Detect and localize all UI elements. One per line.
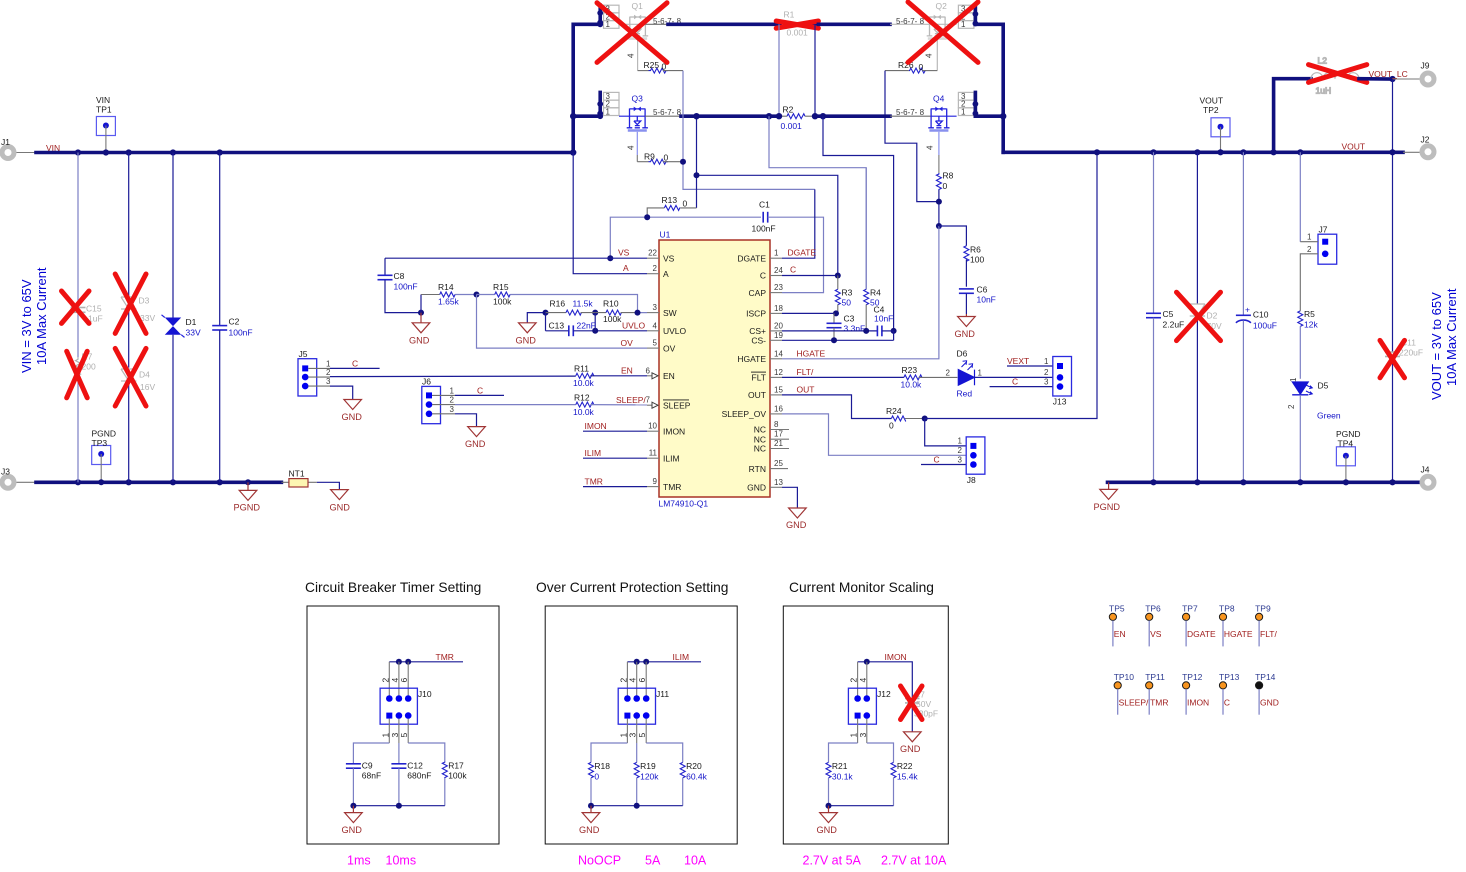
svg-text:TP10: TP10	[1114, 672, 1135, 682]
transistor Q4 pins 1-2-3 boxes	[958, 92, 974, 115]
LED D6 (Red)	[957, 349, 1007, 399]
svg-text:100uF: 100uF	[1253, 321, 1277, 331]
junction dots VOUT rail	[1094, 149, 1304, 155]
svg-text:2: 2	[380, 678, 390, 683]
pin 21 NC	[754, 439, 789, 454]
svg-text:ILIM: ILIM	[585, 448, 602, 458]
wire C stub (J8 pin3)	[921, 464, 966, 466]
wire CS staircase (R2 left to R4)	[769, 116, 866, 289]
svg-text:J6: J6	[422, 377, 431, 387]
svg-text:19: 19	[774, 331, 783, 340]
wire to C12	[398, 743, 400, 764]
svg-text:C: C	[352, 359, 358, 369]
svg-text:J10: J10	[418, 689, 432, 699]
svg-text:R10: R10	[603, 299, 619, 309]
wire to R18	[591, 743, 627, 762]
svg-text:1: 1	[1044, 357, 1049, 366]
svg-text:R8: R8	[943, 171, 954, 181]
svg-text:J12: J12	[877, 689, 891, 699]
DNP X over C11	[1380, 340, 1405, 377]
svg-text:VS: VS	[618, 248, 630, 258]
svg-text:0: 0	[943, 181, 948, 191]
svg-text:HGATE: HGATE	[737, 354, 766, 364]
svg-text:2: 2	[653, 264, 658, 273]
svg-text:2.2uF: 2.2uF	[1163, 320, 1185, 330]
wire DGATE riser (R25/R9 to IC)	[683, 71, 815, 190]
resistor R9	[637, 152, 683, 165]
svg-text:0: 0	[919, 62, 924, 72]
svg-text:10nF: 10nF	[977, 295, 996, 305]
svg-text:TMR: TMR	[1150, 698, 1168, 708]
svg-text:NoOCP: NoOCP	[578, 854, 621, 868]
svg-text:SLEEP_OV: SLEEP_OV	[722, 409, 767, 419]
pin 17 NC	[754, 430, 789, 445]
svg-text:10: 10	[648, 422, 657, 431]
wire J6 pin1 C stub	[432, 394, 455, 396]
svg-text:R16: R16	[550, 299, 566, 309]
box Circuit Breaker Timer Setting	[307, 606, 499, 844]
capacitor C8	[378, 258, 422, 312]
testpoint TP9 FLT/	[1255, 604, 1277, 647]
pin 12 FLT	[751, 368, 783, 383]
svg-text:C2: C2	[229, 317, 240, 327]
svg-text:C: C	[790, 265, 796, 275]
svg-text:TMR: TMR	[663, 482, 681, 492]
svg-text:DGATE: DGATE	[1187, 629, 1216, 639]
svg-text:C8: C8	[394, 271, 405, 281]
capacitor C11 (DNP)	[1385, 338, 1423, 483]
svg-text:GND: GND	[342, 825, 363, 835]
wire C pin line	[782, 275, 838, 277]
svg-text:D6: D6	[957, 349, 968, 359]
svg-text:18: 18	[774, 304, 783, 313]
svg-text:VEXT: VEXT	[1007, 356, 1029, 366]
resistor R15	[474, 282, 648, 313]
svg-text:1.65k: 1.65k	[438, 297, 460, 307]
svg-text:GND: GND	[409, 336, 430, 346]
capacitor C1	[752, 200, 824, 293]
svg-text:24: 24	[774, 266, 783, 275]
svg-text:C15: C15	[86, 304, 102, 314]
wire L2 branch thick	[1274, 79, 1311, 153]
wire Q3 gate stem	[636, 132, 638, 155]
svg-text:TP6: TP6	[1145, 604, 1161, 614]
wire J12 bottom stems	[858, 719, 867, 743]
svg-text:100nF: 100nF	[752, 224, 776, 234]
wire VIN rail	[36, 151, 573, 155]
svg-text:R14: R14	[438, 282, 454, 292]
svg-text:25: 25	[774, 459, 783, 468]
RIGHTPERIPH	[782, 152, 1097, 485]
svg-text:4: 4	[858, 678, 868, 683]
svg-text:100k: 100k	[603, 314, 622, 324]
svg-text:10.0k: 10.0k	[573, 407, 595, 417]
svg-text:J8: J8	[967, 475, 976, 485]
pin 2 A	[647, 264, 669, 279]
svg-text:Q1: Q1	[632, 1, 644, 11]
svg-text:OV: OV	[621, 338, 634, 348]
ground GND (box1)	[345, 806, 363, 823]
svg-text:LM74910-Q1: LM74910-Q1	[659, 499, 709, 509]
svg-text:TP11: TP11	[1145, 672, 1165, 682]
svg-text:R22: R22	[897, 761, 913, 771]
wire CS staircase (R2 right to C4)	[823, 116, 894, 331]
diode D2 (DNP)	[1190, 152, 1222, 482]
svg-text:J1: J1	[1, 137, 10, 147]
svg-text:0: 0	[594, 771, 599, 781]
pin 22 VS	[647, 249, 675, 264]
resistor R10	[573, 299, 641, 325]
svg-text:22: 22	[648, 249, 657, 258]
pin 3 SW	[647, 303, 677, 318]
wire VS/C1 line	[610, 217, 761, 258]
resistor R18	[589, 761, 611, 806]
wire J5 pin1 C stub	[308, 367, 330, 369]
ground GND (J6)	[468, 427, 486, 437]
svg-text:TP1: TP1	[96, 105, 112, 115]
wire Q1 row to R1	[645, 23, 668, 25]
wire C stub (J13 pin3)	[990, 386, 1053, 388]
svg-text:J5: J5	[299, 349, 308, 359]
wire NT1 leads	[281, 481, 289, 483]
svg-text:5A: 5A	[645, 854, 661, 868]
DNP X over C7	[901, 686, 923, 720]
svg-text:2: 2	[450, 396, 455, 405]
svg-text:R15: R15	[493, 282, 509, 292]
svg-text:OV: OV	[663, 343, 676, 353]
pin 20 CS+	[749, 321, 783, 336]
svg-text:1ms: 1ms	[347, 854, 371, 868]
resistor R14	[421, 282, 477, 313]
testpoint TP11 TMR	[1145, 672, 1168, 715]
pin 16 SLEEP_OV	[722, 404, 784, 419]
op-amp U1 LM74910-Q1 body	[659, 240, 770, 497]
ground GND (box3)	[820, 806, 838, 823]
svg-text:ISCP: ISCP	[746, 309, 766, 319]
svg-text:8: 8	[774, 420, 779, 429]
ground PGND (left rail)	[234, 479, 261, 512]
svg-text:R2: R2	[783, 105, 794, 115]
svg-text:3: 3	[958, 455, 963, 464]
wire Q2 gate stem	[936, 40, 938, 71]
box Over Current Protection Setting	[545, 606, 737, 844]
svg-text:Q4: Q4	[933, 94, 945, 104]
svg-text:11.5k: 11.5k	[573, 299, 594, 309]
pin 24 C	[760, 266, 784, 281]
wire Q2 pin bus	[974, 5, 978, 24]
svg-text:100k: 100k	[493, 297, 512, 307]
wire J6 pin3 to ground	[432, 413, 455, 415]
svg-text:A: A	[623, 263, 629, 273]
connector J13	[1053, 357, 1072, 407]
svg-text:DGATE: DGATE	[788, 248, 817, 258]
svg-text:68nF: 68nF	[362, 771, 381, 781]
capacitor C9	[346, 761, 381, 806]
svg-text:6: 6	[646, 366, 651, 375]
svg-text:TP8: TP8	[1219, 604, 1235, 614]
svg-text:+: +	[1245, 305, 1250, 315]
svg-text:TP2: TP2	[1203, 105, 1219, 115]
ground PGND (right rail)	[1100, 482, 1118, 499]
svg-text:50V: 50V	[916, 699, 931, 709]
svg-text:TP12: TP12	[1182, 672, 1203, 682]
wire GND stub after NT1	[317, 482, 340, 489]
ground GND (box2)	[582, 806, 600, 823]
svg-text:IMON: IMON	[885, 652, 907, 662]
svg-text:NC: NC	[754, 444, 766, 454]
ground GND (pin13)	[789, 508, 807, 518]
box Current Monitor Scaling	[783, 606, 948, 844]
transistor Q1 (DNP) symbol	[627, 15, 648, 39]
svg-text:1: 1	[1307, 233, 1312, 242]
svg-text:3: 3	[326, 377, 331, 386]
svg-text:C1: C1	[759, 200, 770, 210]
svg-text:Red: Red	[957, 389, 973, 399]
svg-text:FLT/: FLT/	[797, 367, 814, 377]
resistor R26	[885, 60, 937, 73]
svg-text:4: 4	[925, 53, 934, 58]
svg-text:12: 12	[774, 368, 783, 377]
TOPROW	[570, 1, 1006, 229]
svg-text:1: 1	[958, 437, 963, 446]
svg-text:1: 1	[774, 249, 779, 258]
transistor Q2 pins 1-2-3 boxes	[958, 5, 974, 28]
svg-text:R3: R3	[842, 288, 853, 298]
svg-text:J9: J9	[1421, 61, 1430, 71]
wire GND pin to ground	[782, 487, 797, 508]
DNP X over Q1	[597, 3, 667, 63]
wire PGND rail right	[1108, 480, 1420, 484]
resistor R13	[647, 195, 696, 217]
svg-text:15.4k: 15.4k	[897, 771, 919, 781]
connector J5	[298, 349, 317, 396]
resistor R21	[826, 761, 853, 806]
svg-text:J13: J13	[1053, 397, 1067, 407]
wire J7 pin stubs	[1300, 241, 1318, 243]
capacitor C13	[546, 313, 648, 337]
svg-text:TP3: TP3	[92, 438, 108, 448]
LEFTCOL	[19, 153, 253, 483]
ground GND (C6)	[958, 314, 976, 327]
transistor Q3 pins 1-2-3 boxes	[604, 92, 620, 115]
svg-text:100: 100	[970, 255, 984, 265]
wire EN line (J5 pin2 to R11)	[308, 376, 330, 378]
svg-text:PGND: PGND	[234, 503, 261, 513]
pin 9 TMR	[647, 477, 681, 492]
svg-text:SW: SW	[663, 308, 677, 318]
svg-text:Over Current Protection Settin: Over Current Protection Setting	[536, 580, 728, 595]
junction dots VIN rail	[75, 149, 577, 155]
svg-text:R25: R25	[644, 60, 660, 70]
wire VEXT stub (J13 pin1)	[1007, 365, 1053, 367]
resistor R1 (DNP) with X	[776, 10, 818, 38]
svg-text:R13: R13	[662, 195, 678, 205]
svg-text:C: C	[477, 385, 483, 395]
pin 1 DGATE	[737, 249, 782, 264]
svg-text:5: 5	[653, 339, 658, 348]
wire J10 bottom stems	[389, 719, 408, 743]
svg-text:GND: GND	[1260, 698, 1279, 708]
resistor R2	[779, 105, 815, 132]
junction dots PGND rail	[75, 479, 223, 485]
pin 5 OV	[647, 339, 676, 354]
svg-text:D1: D1	[186, 317, 197, 327]
DNP X over L2	[1309, 65, 1367, 83]
wire Q4 row right thick	[975, 114, 1003, 118]
connector J4	[1421, 465, 1435, 489]
wire IMON stub	[583, 430, 647, 432]
wire Q3 pin bus	[598, 92, 602, 116]
resistor R3	[835, 276, 852, 314]
svg-text:C: C	[1012, 376, 1018, 386]
wire top rail right corner	[975, 24, 1003, 152]
wire TMR node	[389, 661, 463, 663]
ground GND (C7)	[904, 732, 922, 742]
resistor R20	[680, 761, 707, 806]
wire VOUT rail	[1003, 151, 1403, 155]
resistor R23	[901, 365, 958, 390]
junction dots PGND rail right	[1150, 479, 1395, 485]
svg-text:2: 2	[1287, 404, 1296, 409]
resistor R6	[964, 245, 985, 287]
wire SLEEP line (J6 pin2 to R12)	[432, 404, 455, 406]
capacitor C10 (polarized)	[1236, 152, 1277, 482]
svg-text:GND: GND	[465, 439, 486, 449]
svg-text:GND: GND	[579, 825, 600, 835]
resistor R19	[634, 761, 659, 806]
svg-text:17: 17	[774, 430, 783, 439]
wire R1 left sense drop	[778, 24, 780, 116]
svg-text:UVLO: UVLO	[663, 326, 687, 336]
capacitor C5	[1146, 152, 1184, 482]
svg-text:60.4k: 60.4k	[686, 771, 708, 781]
svg-text:0.001: 0.001	[781, 121, 803, 131]
svg-text:PGND: PGND	[1094, 502, 1121, 512]
svg-text:C: C	[760, 271, 766, 281]
svg-text:R24: R24	[886, 406, 902, 416]
capacitor C7 (DNP)	[905, 690, 938, 732]
ground GND (C8/R14)	[409, 310, 430, 346]
resistor R22	[891, 761, 918, 806]
ground GND (J5)	[344, 400, 362, 410]
svg-text:GND: GND	[786, 520, 807, 530]
svg-text:OUT: OUT	[748, 390, 766, 400]
svg-text:GND: GND	[516, 336, 537, 346]
DNP X over D2	[1177, 292, 1221, 340]
wire R2 rail right	[815, 114, 890, 118]
svg-text:R17: R17	[448, 761, 464, 771]
svg-text:13: 13	[774, 478, 783, 487]
svg-text:4: 4	[628, 678, 638, 683]
svg-text:TP4: TP4	[1338, 439, 1354, 449]
pin 11 ILIM	[647, 449, 680, 464]
wire D6 to J13 pin2	[1006, 376, 1053, 378]
LED D5 (Green)	[1287, 377, 1341, 482]
wire VOUT_LC column (through C11)	[1392, 79, 1394, 352]
wire L2 to J9	[1359, 77, 1393, 81]
resistor R12	[573, 392, 647, 417]
testpoint TP13 C	[1219, 672, 1240, 715]
pin 4 UVLO	[647, 321, 687, 336]
svg-text:220uF: 220uF	[1399, 348, 1423, 358]
ground GND (after NT1)	[331, 490, 349, 500]
transistor Q2 (DNP) symbol	[927, 15, 948, 39]
svg-text:2: 2	[1307, 245, 1312, 254]
svg-text:EN: EN	[621, 366, 633, 376]
svg-text:TP14: TP14	[1255, 672, 1276, 682]
wire OUT to R24	[782, 395, 891, 419]
svg-text:EN: EN	[1114, 629, 1126, 639]
svg-text:VS: VS	[1150, 629, 1162, 639]
wire ILIM node	[627, 661, 701, 663]
svg-text:6: 6	[399, 678, 409, 683]
wire J5 pin3 to ground	[308, 385, 330, 387]
svg-text:TP5: TP5	[1109, 604, 1125, 614]
svg-text:GND: GND	[342, 412, 363, 422]
connector J6	[422, 377, 441, 424]
transistor Q4 symbol	[928, 107, 949, 131]
wire Q3 row left thick	[573, 114, 600, 118]
svg-text:C6: C6	[977, 285, 988, 295]
svg-text:IMON: IMON	[663, 426, 685, 436]
svg-text:TMR: TMR	[585, 476, 603, 486]
svg-text:10A Max Current: 10A Max Current	[1444, 288, 1459, 386]
connector J9	[1421, 61, 1435, 86]
svg-text:ILIM: ILIM	[663, 453, 680, 463]
wire to C9	[353, 743, 389, 764]
svg-text:CS-: CS-	[751, 336, 766, 346]
svg-text:J4: J4	[1421, 465, 1430, 475]
capacitor C3	[827, 313, 866, 340]
pin 25 RTN	[749, 459, 788, 474]
DNP X over D3	[115, 274, 146, 333]
svg-text:R19: R19	[640, 761, 656, 771]
svg-text:9: 9	[653, 477, 658, 486]
svg-text:50: 50	[842, 298, 852, 308]
svg-text:3: 3	[450, 405, 455, 414]
svg-text:4: 4	[627, 53, 636, 58]
svg-text:2: 2	[326, 368, 331, 377]
svg-text:HGATE: HGATE	[797, 348, 826, 358]
svg-text:10nF: 10nF	[874, 314, 893, 324]
ICU1	[646, 230, 807, 531]
wire CS- line	[782, 339, 894, 341]
wire J12 top stems	[858, 662, 867, 696]
inductor L2 (DNP)	[1311, 56, 1359, 96]
pin 8 NC	[754, 420, 789, 435]
DNP X over C15	[62, 291, 90, 323]
svg-text:100nF: 100nF	[394, 282, 418, 292]
svg-text:0: 0	[683, 199, 688, 209]
svg-text:4: 4	[627, 145, 636, 150]
svg-text:OUT: OUT	[797, 384, 815, 394]
resistor R24	[886, 406, 925, 431]
svg-text:3: 3	[1044, 377, 1049, 386]
resistor R5	[1298, 309, 1319, 379]
svg-text:VIN = 3V to 65V: VIN = 3V to 65V	[19, 279, 34, 373]
svg-text:VOUT = 3V to 65V: VOUT = 3V to 65V	[1429, 292, 1444, 400]
svg-text:7: 7	[646, 396, 651, 405]
svg-text:VOUT: VOUT	[1342, 142, 1366, 152]
testpoint TP7 DGATE	[1182, 604, 1216, 647]
svg-text:5-6-7- 8: 5-6-7- 8	[896, 17, 925, 26]
svg-text:R21: R21	[832, 761, 848, 771]
svg-text:1: 1	[961, 107, 966, 116]
svg-text:GND: GND	[955, 329, 976, 339]
svg-text:PGND: PGND	[92, 429, 117, 439]
svg-text:R23: R23	[902, 365, 918, 375]
svg-text:GND: GND	[330, 503, 351, 513]
